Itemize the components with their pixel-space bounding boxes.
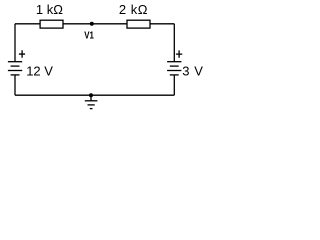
svg-text:V1: V1 xyxy=(84,29,94,41)
label V1 value 12 V xyxy=(26,64,53,79)
resistor R1 xyxy=(40,20,63,28)
resistor R2 xyxy=(127,20,150,28)
ground xyxy=(85,95,98,108)
svg-text:3 V: 3 V xyxy=(182,64,203,79)
svg-text:1 kΩ: 1 kΩ xyxy=(36,2,63,17)
wire xyxy=(15,94,174,96)
wire xyxy=(150,23,174,25)
wire xyxy=(14,75,16,95)
wire xyxy=(14,24,16,62)
wire xyxy=(63,23,127,25)
svg-text:2 kΩ: 2 kΩ xyxy=(119,2,148,17)
label node V1 xyxy=(84,29,94,41)
battery V2 3V plates xyxy=(167,62,181,75)
wire xyxy=(15,23,40,25)
wire xyxy=(173,24,175,62)
battery V1 12V plates xyxy=(8,62,22,75)
node V1 xyxy=(90,22,94,26)
label V2 value 3 V xyxy=(182,64,203,79)
polarity + of battery V2 xyxy=(176,50,182,57)
junction dot at ground node xyxy=(89,93,93,97)
polarity + of battery V1 xyxy=(19,50,25,58)
svg-text:12 V: 12 V xyxy=(26,64,53,79)
label R1 value 1 kΩ xyxy=(36,2,63,17)
wire xyxy=(173,75,175,95)
label R2 value 2 kΩ xyxy=(119,2,148,17)
